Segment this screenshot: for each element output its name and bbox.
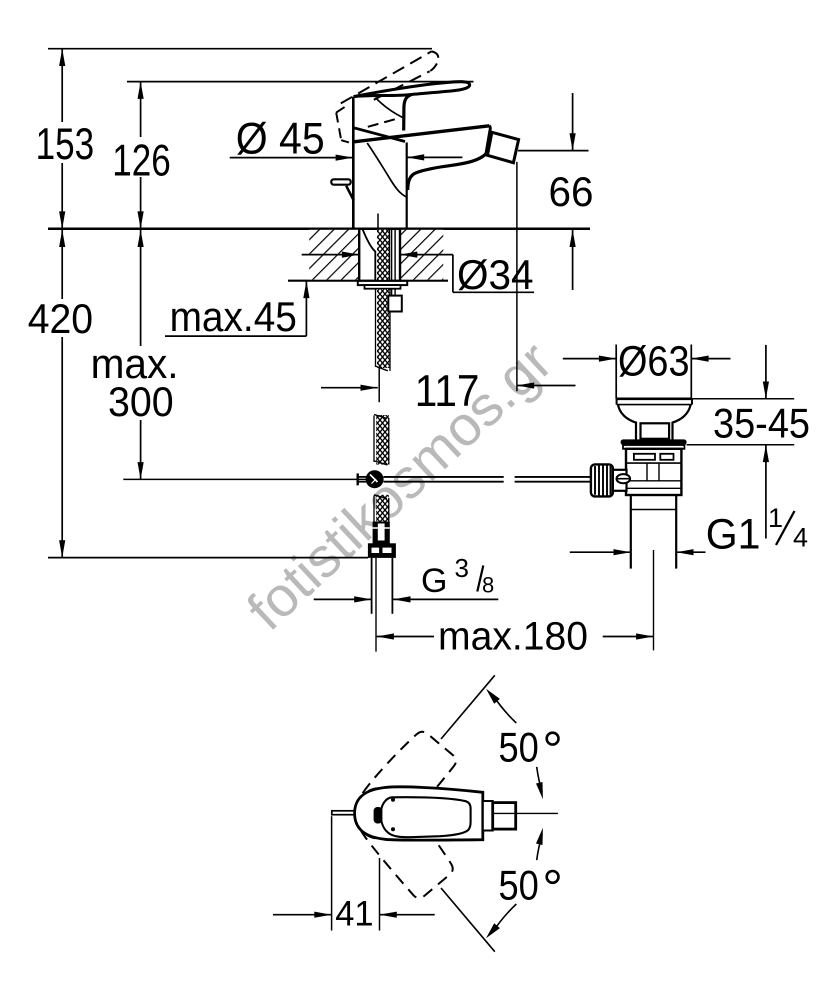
dim 41 ext lines [331, 816, 333, 930]
dim Ø34 line + arrows [302, 255, 534, 293]
shank flange [358, 281, 407, 285]
dim 117 extension line from aerator [516, 162, 518, 391]
dim 420 arrow down [59, 540, 65, 557]
angle arc lower [492, 904, 516, 933]
dashed head top [336, 104, 349, 113]
rod clamp [613, 470, 627, 491]
label Ø45 leader line [230, 157, 353, 159]
spout underside [408, 154, 486, 190]
dim max.300 vertical line [140, 229, 142, 480]
dashed head left edge [336, 113, 341, 141]
dim max.180 [377, 636, 434, 638]
dashed capsule lower [343, 777, 459, 901]
dashed head bottom [341, 140, 350, 143]
dim 35-45 upper arrow [765, 345, 767, 399]
rod right segment 2 [515, 476, 591, 478]
top view inner lever [381, 797, 471, 837]
svg-text:Ø63: Ø63 [618, 338, 690, 386]
hose crosshatch in hole [377, 230, 389, 281]
dim 126 arrow up [138, 82, 144, 99]
supply pipe walls [371, 558, 373, 614]
waste tailpipe [630, 510, 632, 569]
knurled knob [591, 464, 613, 496]
deck bottom line [288, 280, 448, 282]
rod stub left of ball [358, 476, 367, 478]
hose end fitting [373, 522, 390, 544]
svg-text:Ø34: Ø34 [457, 251, 534, 298]
pull rod tube below flange [391, 289, 393, 296]
pull rod tube lines [391, 229, 393, 281]
hose segment A [377, 289, 389, 368]
lever neck [404, 95, 411, 131]
hose bend curve [363, 229, 376, 281]
waste centerline extension [653, 550, 655, 650]
body S-curve [367, 143, 406, 197]
pull rod guide fitting [388, 296, 402, 312]
svg-text:Ø 45: Ø 45 [236, 115, 325, 164]
angle arc upper [492, 695, 516, 724]
dim 35-45 ext top [691, 398, 794, 400]
aerator [487, 132, 518, 162]
dim 153 vertical line [61, 49, 63, 229]
waste stem box [641, 423, 670, 439]
reference line top (153 extent) [48, 48, 432, 50]
deck top line [48, 227, 590, 230]
top view aerator [493, 803, 516, 830]
dim 126 vertical line [140, 82, 142, 229]
hole left wall [358, 229, 360, 281]
top view outer body [355, 787, 483, 840]
dim G1 1/4 [570, 551, 706, 553]
dim 420 arrow up at deck [59, 230, 65, 247]
waste flange [617, 397, 692, 400]
dim Ø45 right arrow [407, 156, 463, 158]
svg-text:max.180: max.180 [438, 615, 588, 659]
waste step [630, 495, 632, 510]
svg-text:1: 1 [768, 503, 783, 533]
dashed head lower-right edge [368, 119, 396, 127]
centerline right [494, 812, 558, 814]
svg-text:35-45: 35-45 [713, 399, 810, 446]
dim 153 arrow up [59, 49, 65, 66]
dashed capsule upper [343, 726, 459, 850]
dim max.300 arrow up at deck [138, 230, 144, 247]
dim 66 upper arrow [572, 93, 574, 151]
head arc [375, 98, 402, 118]
waste inner mech [626, 480, 681, 482]
svg-text:50: 50 [499, 723, 539, 770]
svg-text:max.45: max.45 [170, 293, 297, 340]
dim 117 left arrow [321, 387, 378, 389]
rod right segment 1 [384, 476, 504, 478]
ball joint [366, 470, 384, 488]
svg-text:G1: G1 [706, 511, 761, 559]
svg-text:300: 300 [108, 378, 174, 425]
reference line 126 extent [127, 81, 474, 83]
clamp screw [617, 474, 631, 483]
stub pull rod top view [332, 811, 355, 815]
lever blade [354, 82, 470, 97]
svg-text:G: G [421, 562, 447, 600]
hole right wall [399, 229, 401, 281]
pull-rod diagonal [346, 186, 354, 201]
svg-text:4: 4 [793, 523, 808, 553]
connection nut [368, 543, 396, 558]
dashed raised lever line2 [374, 71, 430, 100]
waste neck left [618, 405, 636, 440]
dashed raised lever tip arc [430, 51, 439, 71]
top view neck [483, 801, 493, 831]
dim 66 extension line at spout [518, 150, 589, 152]
hose centerline at base [377, 214, 379, 230]
dim 153 arrow down [59, 211, 65, 228]
dim 126 arrow down [138, 211, 144, 228]
waste slots [634, 454, 655, 460]
dim Ø63 [563, 345, 731, 399]
thin line to rod (max300 reference) [123, 478, 366, 480]
waste seat ring [621, 439, 687, 445]
dim max.300 arrow down at rod [138, 462, 144, 479]
lever dark mark [374, 807, 383, 824]
dashed raised lever line1 [341, 51, 432, 103]
body right edge [406, 143, 408, 228]
svg-text:3: 3 [455, 553, 469, 583]
svg-text:126: 126 [112, 136, 171, 185]
svg-text:117: 117 [415, 367, 480, 416]
deck hatch right block [400, 230, 443, 280]
dim 420 vertical line [61, 229, 63, 558]
spout tip end face [486, 126, 490, 154]
bottom reference line (420 end) [48, 557, 368, 559]
leg upper 50 [441, 675, 495, 739]
head bottom edge [354, 128, 405, 142]
waste neck right [673, 405, 691, 440]
hose segment B [376, 415, 389, 465]
spout top edge [353, 126, 489, 142]
dim 117 extension line [378, 368, 380, 402]
dim 66 lower arrow [572, 230, 574, 290]
svg-text:50: 50 [499, 862, 539, 909]
label Ø45 arrow right [336, 155, 353, 161]
svg-text:66: 66 [549, 168, 594, 215]
supply pipe centerline [375, 558, 377, 652]
body left edge [352, 97, 355, 228]
lever dots [391, 798, 395, 802]
dim 41 arrows [273, 914, 332, 916]
dim 35-45 ext bottom [687, 444, 795, 446]
pull-rod knob [331, 179, 350, 184]
svg-text:153: 153 [36, 120, 95, 169]
waste body line [626, 462, 681, 464]
svg-text:41: 41 [335, 895, 373, 934]
svg-text:420: 420 [28, 295, 93, 342]
dim 35-45 lower arrow [765, 445, 767, 539]
leg lower 50 [441, 888, 495, 952]
waste body [626, 449, 681, 495]
dim G3/8 [314, 598, 499, 600]
dim 117 right arrow [517, 385, 576, 387]
svg-text:8: 8 [482, 573, 494, 598]
hose segment C [376, 495, 389, 522]
deck hatch left block [309, 230, 359, 280]
